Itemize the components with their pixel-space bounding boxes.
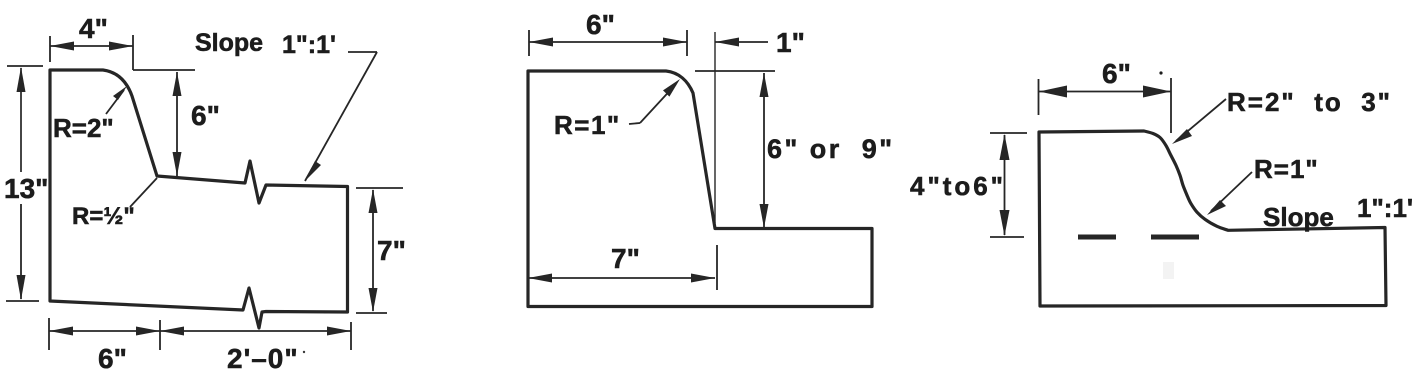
R=2 leader bbox=[106, 86, 127, 114]
svg-text:1":1': 1":1' bbox=[282, 31, 336, 59]
7 inch dimension right side bbox=[356, 188, 403, 313]
face extension line bbox=[714, 32, 716, 223]
R=1 leader right figure bbox=[1207, 172, 1252, 215]
13 inch dimension left bbox=[6, 66, 43, 301]
svg-text:6": 6" bbox=[98, 343, 127, 371]
curb outline left figure bbox=[50, 70, 348, 328]
gutter dashed line bbox=[1078, 235, 1199, 240]
svg-text:R=½": R=½" bbox=[72, 203, 135, 230]
scan speck after 2ft label bbox=[303, 351, 305, 353]
7 inch dimension middle bbox=[528, 245, 717, 290]
R=2to3 leader bbox=[1172, 99, 1226, 144]
svg-text:Slope: Slope bbox=[1263, 202, 1334, 232]
6 or 9 inch dimension bbox=[760, 73, 769, 228]
faint smudge right figure bbox=[1163, 262, 1174, 279]
svg-text:Slope: Slope bbox=[195, 29, 263, 57]
svg-text:7": 7" bbox=[377, 235, 406, 266]
svg-text:4": 4" bbox=[79, 13, 108, 44]
svg-text:6": 6" bbox=[1102, 58, 1131, 89]
svg-text:6" or 9": 6" or 9" bbox=[767, 134, 892, 164]
curb outline middle figure bbox=[528, 71, 872, 307]
6 inch vertical dimension bbox=[173, 72, 182, 176]
6 inch dimension top middle bbox=[529, 30, 687, 56]
slope leader arrow bbox=[305, 52, 377, 181]
scan speck near right 6 inch label bbox=[1159, 71, 1162, 74]
svg-text:7": 7" bbox=[611, 243, 640, 274]
svg-text:6": 6" bbox=[191, 100, 220, 131]
svg-text:1":1': 1":1' bbox=[1357, 193, 1413, 223]
svg-text:R=1": R=1" bbox=[554, 110, 621, 140]
svg-text:R=2": R=2" bbox=[53, 113, 114, 143]
svg-text:6": 6" bbox=[586, 9, 615, 40]
extension line from 4in to 6in dim bbox=[133, 69, 195, 71]
curb outline right figure bbox=[1039, 131, 1386, 306]
1 inch dimension bbox=[715, 38, 768, 47]
R=1/2 leader bbox=[130, 178, 157, 207]
R=1 leader middle bbox=[629, 79, 680, 124]
svg-text:13": 13" bbox=[4, 173, 48, 204]
top extension line for 6or9 bbox=[695, 70, 775, 72]
4 to 6 inch dimension bbox=[990, 133, 1027, 237]
svg-text:R=2" to 3": R=2" to 3" bbox=[1227, 87, 1390, 117]
svg-text:2'–0": 2'–0" bbox=[227, 343, 299, 371]
4 inch dimension top bbox=[50, 35, 133, 70]
svg-text:R=1": R=1" bbox=[1254, 154, 1319, 184]
bottom dimension line bbox=[49, 318, 351, 350]
6 inch dimension right figure bbox=[1039, 78, 1172, 133]
svg-text:1": 1" bbox=[776, 27, 805, 58]
